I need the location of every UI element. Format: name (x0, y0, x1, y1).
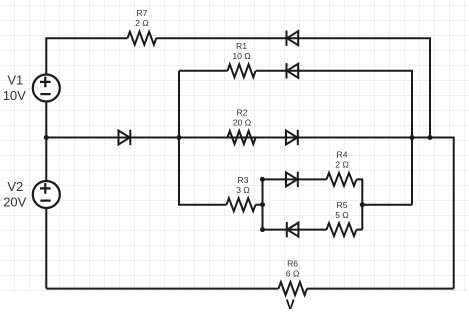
svg-text:6 Ω: 6 Ω (286, 268, 300, 278)
svg-text:R5: R5 (337, 200, 348, 210)
svg-text:R7: R7 (136, 8, 147, 18)
svg-text:2 Ω: 2 Ω (135, 18, 149, 28)
diode D_top (pointing right) (286, 172, 298, 187)
wire bottom branch right (357, 229, 363, 231)
wire V2 bottom to bottom row (45, 208, 47, 289)
voltage source V1 (3, 73, 60, 104)
resistor R6 (279, 258, 308, 295)
svg-text:V2: V2 (7, 179, 23, 194)
wire row2 right + vertical at x412 (256, 71, 412, 205)
node junction 8 (360, 202, 365, 207)
node junction 4 (428, 135, 433, 140)
wire V1 bottom to V2 top (45, 102, 47, 182)
diode D_row1 (pointing left) (287, 31, 299, 46)
svg-text:V: V (286, 297, 295, 312)
resistor R3 (227, 175, 256, 211)
node junction 7 (260, 227, 265, 232)
wire R3 to block (256, 204, 263, 206)
wire block left vertical x262.5 (262, 179, 264, 229)
wire top branch right corner (357, 179, 363, 229)
node junction 3 (410, 135, 415, 140)
resistor R1 (228, 41, 256, 78)
wire top-left V1 to row1 (46, 38, 127, 74)
svg-text:20 Ω: 20 Ω (233, 117, 252, 127)
svg-text:10 Ω: 10 Ω (232, 51, 251, 61)
diode D_bottom (pointing left) (287, 222, 299, 237)
diode D_row3_right (pointing right) (286, 130, 298, 145)
wire bottom row right (307, 288, 454, 290)
node junction 6 (260, 202, 265, 207)
resistor R5 (327, 200, 357, 236)
resistor R7 (128, 8, 157, 45)
wire block mid link to x412 (362, 204, 412, 206)
wire bottom row left (46, 288, 278, 290)
svg-text:R6: R6 (287, 258, 298, 268)
wire row3 full horizontal + right vertical (46, 138, 453, 289)
wire bottom branch (263, 229, 327, 231)
svg-text:20V: 20V (3, 195, 26, 210)
resistor R4 (327, 149, 357, 186)
svg-text:V1: V1 (7, 73, 23, 88)
node junction 5 (260, 177, 265, 182)
svg-text:10V: 10V (3, 88, 26, 103)
svg-text:R3: R3 (238, 175, 249, 185)
resistor R2 (228, 107, 256, 144)
svg-text:R2: R2 (237, 107, 248, 117)
wire row1 right + vertical at x430 (156, 38, 430, 137)
svg-text:3 Ω: 3 Ω (236, 185, 250, 195)
svg-text:2 Ω: 2 Ω (335, 159, 349, 169)
wire row2 left vertical x179 (179, 71, 227, 205)
voltage source V2 (3, 179, 60, 210)
diode D_row3_left (pointing right) (119, 130, 131, 145)
svg-text:5 Ω: 5 Ω (335, 210, 349, 220)
node junction 2 (177, 135, 182, 140)
svg-text:R1: R1 (236, 41, 247, 51)
svg-text:R4: R4 (337, 149, 348, 159)
node junction 1 (44, 135, 49, 140)
wire top branch (263, 178, 327, 180)
diode D_row2 (pointing left) (287, 63, 299, 78)
wire row2 horizontal (179, 70, 228, 72)
